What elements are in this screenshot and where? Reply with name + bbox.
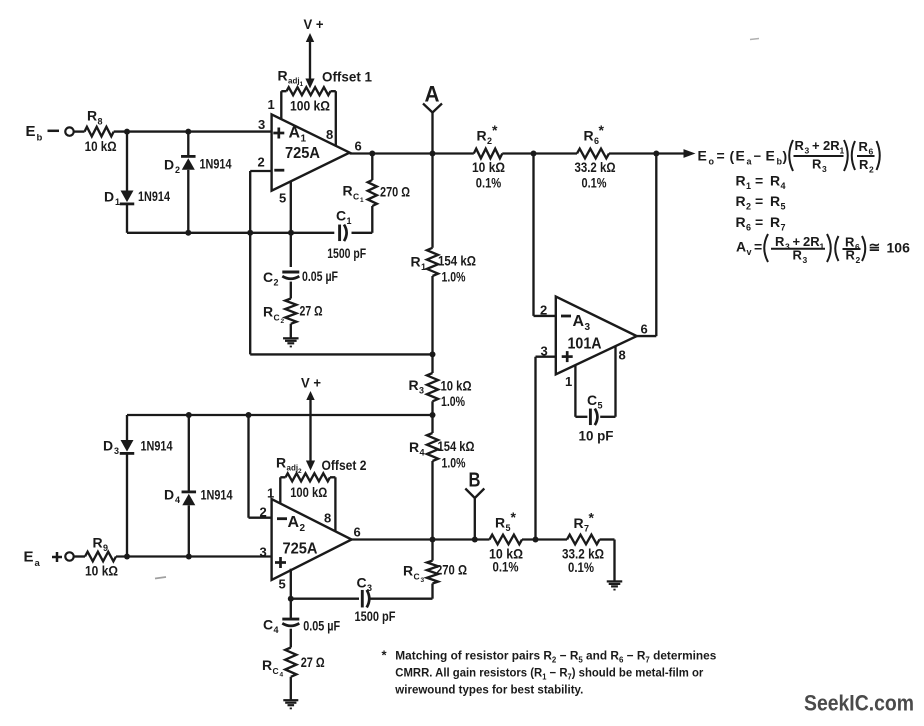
svg-text:10 pF: 10 pF xyxy=(579,428,614,444)
svg-text:0.1%: 0.1% xyxy=(493,559,519,575)
svg-text:3: 3 xyxy=(805,146,810,156)
svg-text:R: R xyxy=(574,515,584,531)
svg-text:2R: 2R xyxy=(803,234,820,249)
svg-text:1: 1 xyxy=(268,97,275,112)
svg-text:1.0%: 1.0% xyxy=(442,269,466,285)
svg-text:3: 3 xyxy=(421,577,425,584)
svg-text:3: 3 xyxy=(585,322,591,333)
svg-text:1: 1 xyxy=(115,197,120,207)
svg-text:D: D xyxy=(103,438,113,454)
svg-text:2: 2 xyxy=(300,523,306,534)
svg-text:5: 5 xyxy=(781,202,786,212)
svg-text:R: R xyxy=(87,108,97,124)
svg-text:C: C xyxy=(587,392,597,408)
svg-text:1: 1 xyxy=(360,197,364,204)
svg-text:R: R xyxy=(343,183,353,199)
svg-text:3: 3 xyxy=(367,583,372,593)
svg-text:C: C xyxy=(263,269,273,285)
svg-text:1500 pF: 1500 pF xyxy=(327,245,366,261)
svg-text:R: R xyxy=(584,128,594,144)
svg-text:7: 7 xyxy=(781,222,786,232)
svg-text:E: E xyxy=(698,148,707,164)
svg-text:0.1%: 0.1% xyxy=(476,175,502,191)
svg-text:3: 3 xyxy=(419,386,424,396)
svg-text:1: 1 xyxy=(746,181,751,191)
svg-text:2: 2 xyxy=(175,165,180,175)
svg-text:CMRR. All gain resistors (R1 −: CMRR. All gain resistors (R1 − R7) shoul… xyxy=(395,666,703,682)
svg-text:6: 6 xyxy=(855,242,860,252)
svg-text:1: 1 xyxy=(565,374,572,389)
svg-text:C: C xyxy=(263,617,273,633)
svg-text:3: 3 xyxy=(803,255,808,265)
svg-text:0.1%: 0.1% xyxy=(568,559,594,575)
svg-text:8: 8 xyxy=(326,127,333,142)
svg-text:=: = xyxy=(755,193,763,209)
svg-text:2: 2 xyxy=(856,255,861,265)
svg-text:3: 3 xyxy=(785,242,790,252)
svg-text:=: = xyxy=(755,214,763,230)
svg-text:E: E xyxy=(766,148,775,164)
svg-text:A: A xyxy=(573,313,585,330)
svg-text:*: * xyxy=(589,510,595,526)
svg-text:R: R xyxy=(859,139,869,154)
svg-text:R: R xyxy=(812,157,822,172)
svg-text:154 kΩ: 154 kΩ xyxy=(438,253,476,269)
svg-text:R: R xyxy=(736,193,746,209)
svg-text:*: * xyxy=(492,122,498,138)
svg-text:270 Ω: 270 Ω xyxy=(436,562,467,578)
svg-text:4: 4 xyxy=(420,448,425,458)
svg-text:C: C xyxy=(357,575,367,591)
svg-text:100 kΩ: 100 kΩ xyxy=(290,484,327,500)
svg-text:a: a xyxy=(35,558,41,569)
svg-text:R: R xyxy=(409,439,419,455)
svg-text:(: ( xyxy=(730,148,735,164)
svg-text:R: R xyxy=(93,535,103,551)
svg-text:R: R xyxy=(736,173,746,189)
svg-text:R: R xyxy=(775,234,785,249)
svg-text:R: R xyxy=(770,173,780,189)
svg-text:R: R xyxy=(409,377,419,393)
svg-text:3: 3 xyxy=(822,164,827,174)
svg-text:1500 pF: 1500 pF xyxy=(355,608,396,624)
svg-text:R: R xyxy=(276,455,286,471)
svg-text:R: R xyxy=(278,68,288,84)
svg-text:1N914: 1N914 xyxy=(201,487,233,503)
svg-text:R: R xyxy=(770,193,780,209)
svg-text:R: R xyxy=(793,248,803,263)
svg-text:33.2 kΩ: 33.2 kΩ xyxy=(575,159,616,175)
svg-text:A: A xyxy=(289,125,301,142)
svg-text:1N914: 1N914 xyxy=(138,188,170,204)
svg-text:10 kΩ: 10 kΩ xyxy=(85,138,117,154)
svg-text:=: = xyxy=(754,239,762,255)
svg-text:+: + xyxy=(812,138,820,153)
svg-text:10 kΩ: 10 kΩ xyxy=(441,378,472,394)
svg-text:0.1%: 0.1% xyxy=(582,175,607,191)
svg-text:106: 106 xyxy=(887,240,911,256)
svg-text:2: 2 xyxy=(258,155,265,170)
svg-text:1.0%: 1.0% xyxy=(441,393,465,409)
svg-text:1: 1 xyxy=(347,216,352,226)
svg-text:0.05 µF: 0.05 µF xyxy=(302,268,338,284)
svg-text:1: 1 xyxy=(300,81,304,88)
svg-text:0.05 µF: 0.05 µF xyxy=(303,618,340,634)
svg-text:Offset 1: Offset 1 xyxy=(322,69,372,85)
svg-text:R: R xyxy=(263,304,273,320)
svg-text:adj: adj xyxy=(287,464,299,473)
svg-text:1.0%: 1.0% xyxy=(442,455,466,471)
svg-text:V +: V + xyxy=(304,16,324,32)
svg-text:A: A xyxy=(736,239,746,255)
svg-text:27 Ω: 27 Ω xyxy=(300,303,323,319)
svg-text:2: 2 xyxy=(274,278,279,288)
svg-text:5: 5 xyxy=(598,401,603,411)
svg-text:R: R xyxy=(411,254,421,270)
svg-text:3: 3 xyxy=(114,446,119,456)
svg-text:=: = xyxy=(717,148,725,164)
svg-text:27 Ω: 27 Ω xyxy=(301,654,325,670)
svg-text:725A: 725A xyxy=(283,541,318,558)
svg-text:R: R xyxy=(403,563,413,579)
svg-text:270 Ω: 270 Ω xyxy=(380,184,410,200)
svg-text:C: C xyxy=(414,572,420,582)
svg-text:6: 6 xyxy=(355,139,362,154)
svg-text:3: 3 xyxy=(258,117,265,132)
svg-text:o: o xyxy=(709,157,715,167)
svg-text:R: R xyxy=(477,128,487,144)
svg-text:5: 5 xyxy=(279,577,286,592)
svg-text:1: 1 xyxy=(820,242,825,252)
svg-text:5: 5 xyxy=(279,191,286,206)
svg-text:E: E xyxy=(26,123,36,140)
svg-text:1: 1 xyxy=(267,486,274,501)
svg-text:R: R xyxy=(859,157,869,172)
svg-text:A: A xyxy=(288,514,300,531)
svg-text:adj: adj xyxy=(288,77,300,86)
svg-text:2R: 2R xyxy=(823,138,840,153)
svg-text:C: C xyxy=(274,313,280,323)
svg-text:B: B xyxy=(469,470,481,492)
svg-text:101A: 101A xyxy=(568,336,602,353)
svg-text:D: D xyxy=(164,487,174,503)
svg-text:2: 2 xyxy=(869,165,874,175)
svg-text:wirewound types for best stabi: wirewound types for best stability. xyxy=(394,683,583,697)
svg-text:6: 6 xyxy=(641,322,648,337)
svg-text:D: D xyxy=(104,189,114,205)
svg-text:2: 2 xyxy=(281,318,285,325)
svg-text:1N914: 1N914 xyxy=(200,156,232,172)
svg-text:E: E xyxy=(24,549,34,566)
svg-text:R: R xyxy=(495,515,505,531)
svg-text:154 kΩ: 154 kΩ xyxy=(438,438,475,454)
svg-text:≅: ≅ xyxy=(869,239,881,255)
svg-text:SeekIC.com: SeekIC.com xyxy=(804,691,914,716)
svg-text:1: 1 xyxy=(840,146,845,156)
svg-text:3: 3 xyxy=(260,545,267,560)
svg-text:E: E xyxy=(736,148,745,164)
svg-text:Matching of resistor pairs R2: Matching of resistor pairs R2 − R5 and R… xyxy=(395,649,716,665)
svg-text:8: 8 xyxy=(324,511,331,526)
svg-text:A: A xyxy=(425,82,440,107)
svg-text:8: 8 xyxy=(98,117,103,127)
svg-text:V +: V + xyxy=(301,375,321,391)
svg-text:1N914: 1N914 xyxy=(141,438,173,454)
svg-text:*: * xyxy=(511,509,517,525)
svg-text:10 kΩ: 10 kΩ xyxy=(85,563,118,579)
svg-text:100 kΩ: 100 kΩ xyxy=(290,98,330,114)
svg-text:10 kΩ: 10 kΩ xyxy=(472,159,505,175)
svg-text:4: 4 xyxy=(175,495,180,505)
svg-text:R: R xyxy=(736,214,746,230)
svg-text:R: R xyxy=(770,214,780,230)
svg-text:C: C xyxy=(353,192,359,202)
svg-text:2: 2 xyxy=(540,303,547,318)
svg-text:4: 4 xyxy=(274,625,279,635)
svg-text:R: R xyxy=(846,248,856,263)
svg-text:6: 6 xyxy=(746,222,751,232)
svg-text:): ) xyxy=(783,148,788,164)
svg-text:6: 6 xyxy=(354,525,361,540)
svg-text:R: R xyxy=(262,657,272,673)
svg-text:−: − xyxy=(754,149,762,164)
svg-text:4: 4 xyxy=(280,671,284,678)
svg-text:1: 1 xyxy=(421,262,426,272)
svg-text:2: 2 xyxy=(260,505,267,520)
svg-text:*: * xyxy=(599,122,605,138)
svg-text:725A: 725A xyxy=(285,145,320,162)
svg-text:C: C xyxy=(273,666,279,676)
svg-text:Offset 2: Offset 2 xyxy=(322,457,367,473)
svg-text:2: 2 xyxy=(746,202,751,212)
svg-text:R: R xyxy=(795,138,805,153)
svg-text:b: b xyxy=(37,133,43,144)
svg-text:8: 8 xyxy=(619,348,626,363)
svg-text:C: C xyxy=(336,208,346,224)
svg-text:v: v xyxy=(747,247,752,257)
svg-text:D: D xyxy=(164,157,174,173)
svg-text:=: = xyxy=(755,173,763,189)
svg-text:4: 4 xyxy=(781,181,786,191)
svg-text:1: 1 xyxy=(301,133,307,144)
svg-text:9: 9 xyxy=(103,543,108,553)
svg-text:2: 2 xyxy=(298,468,302,475)
